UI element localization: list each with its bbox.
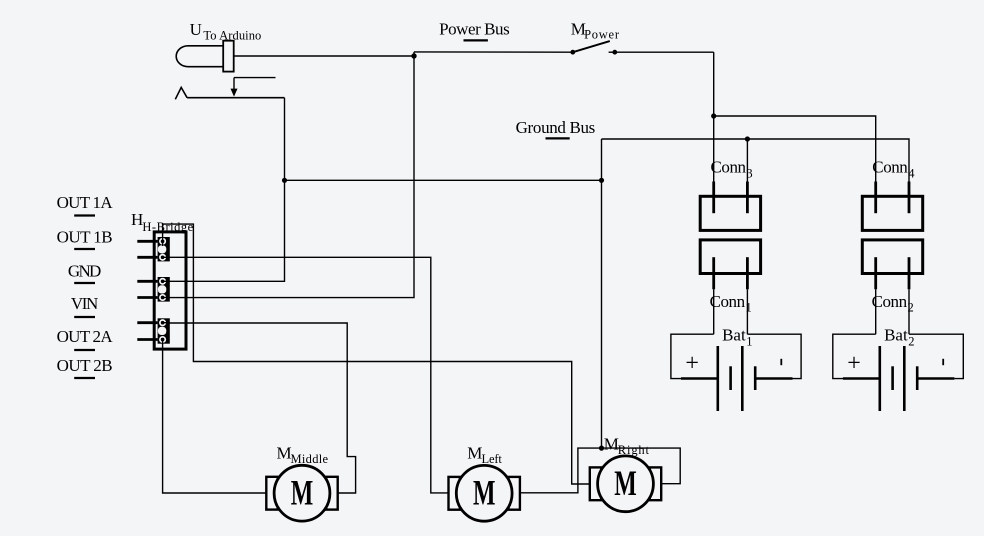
- svg-text:Conn: Conn: [711, 158, 747, 177]
- svg-text:M: M: [614, 463, 637, 503]
- wire arduino GND arrow to H-bridge pin 3: [166, 98, 285, 282]
- wire power bus step at junction: [413, 52, 415, 56]
- label Conn4: [872, 158, 915, 181]
- pin label OUT 1A: [57, 193, 114, 216]
- svg-text:3: 3: [746, 167, 752, 181]
- svg-text:Power: Power: [584, 28, 620, 42]
- pin label GND: [68, 261, 101, 283]
- label H H-Bridge: [131, 210, 194, 234]
- label Bat2: [884, 325, 914, 348]
- motor M_Right body: [590, 456, 661, 512]
- wire power junction down to H-bridge pin 4 VIN: [166, 56, 414, 298]
- wire M_Left right terminal loop to M_Right right terminal: [520, 448, 680, 493]
- connector Conn3 body: [700, 182, 760, 231]
- svg-text:Bat: Bat: [722, 325, 746, 344]
- motor M_Left body: [449, 465, 520, 521]
- label M_Power: [571, 20, 620, 42]
- wire ground bus drop to Conn3 right pin: [746, 139, 748, 182]
- svg-text:M: M: [277, 443, 292, 462]
- wire switch to Conn3 drop corner: [615, 51, 714, 53]
- svg-text:1: 1: [746, 334, 752, 348]
- connector U1 To Arduino (LED style plug): [176, 41, 233, 72]
- svg-text:+: +: [685, 350, 699, 376]
- pin label OUT 2A: [57, 327, 114, 350]
- svg-text:Power Bus: Power Bus: [439, 20, 510, 39]
- connector Conn4 body: [862, 182, 922, 231]
- svg-text:VIN: VIN: [71, 294, 98, 313]
- svg-text:Right: Right: [618, 443, 650, 457]
- label M_Middle: [277, 443, 329, 466]
- node junction GND net at arrow drop: [282, 178, 287, 183]
- svg-text:Bat: Bat: [884, 325, 908, 344]
- wire power branch down to Conn3 left pin: [713, 116, 715, 182]
- svg-text:OUT 2A: OUT 2A: [57, 327, 114, 346]
- node junction ground / M_Right loop: [599, 446, 604, 451]
- node junction ground bus / Conn3 right pin: [745, 136, 750, 141]
- H-bridge pad pins 3-4: [158, 277, 170, 302]
- wire vertical drop to power branch node: [713, 52, 715, 116]
- svg-text:M: M: [467, 444, 482, 463]
- svg-text:M: M: [473, 473, 496, 513]
- svg-text:GND: GND: [68, 261, 101, 280]
- svg-text:Left: Left: [482, 452, 503, 466]
- svg-text:2: 2: [908, 334, 914, 348]
- label Ground Bus: [516, 118, 596, 139]
- pin label OUT 2B: [57, 356, 113, 378]
- wire ground bus: [602, 139, 910, 182]
- node junction power branch Conn3/Conn4: [711, 113, 716, 118]
- wire Conn2 right pin to Bat2: [908, 289, 910, 334]
- label U1 To Arduino: [190, 20, 262, 43]
- node junction power bus / VIN: [411, 53, 416, 58]
- switch M_Power: [570, 41, 617, 55]
- svg-text:OUT 1A: OUT 1A: [57, 193, 114, 212]
- svg-text:Ground Bus: Ground Bus: [516, 118, 596, 137]
- label M_Right: [604, 435, 650, 458]
- arduino GND arrow symbol: [175, 78, 284, 100]
- svg-text:1: 1: [746, 301, 752, 315]
- battery Bat2 body: [833, 334, 964, 411]
- pin label OUT 1B: [57, 227, 113, 249]
- wire power branch to Conn4: [714, 116, 876, 182]
- motor M_Middle body: [266, 465, 337, 521]
- label Bat1: [722, 325, 752, 348]
- H-bridge U2 body: [154, 232, 186, 349]
- svg-text:Conn: Conn: [872, 158, 908, 177]
- svg-text:Conn: Conn: [710, 292, 746, 311]
- connector Conn2 body: [862, 240, 922, 289]
- node junction GND net / ground vertical: [599, 178, 604, 183]
- wire ground horizontal (GND net to ground vertical): [285, 179, 602, 181]
- svg-text:4: 4: [908, 167, 915, 181]
- wire power bus right segment (junction to switch): [414, 51, 573, 53]
- svg-text:U: U: [190, 20, 202, 39]
- wire Conn2 left pin to Bat2: [875, 289, 877, 334]
- wire power bus left segment (U1 to junction): [234, 55, 414, 57]
- label Conn1: [710, 292, 752, 315]
- svg-text:M: M: [291, 472, 314, 512]
- wire Conn1 left pin to Bat1: [713, 289, 715, 334]
- wire ground vertical (bus corner to M_Right loop): [601, 139, 603, 448]
- H-bridge pad pins 5-6: [158, 318, 170, 343]
- label Conn3: [711, 158, 753, 181]
- svg-text:Middle: Middle: [291, 452, 329, 466]
- wire H-bridge pin 1 OUT1A to M_Right left terminal: [163, 224, 590, 484]
- battery Bat1 body: [671, 334, 801, 411]
- wire H-bridge pin 2 OUT1B to M_Left left terminal: [166, 257, 449, 493]
- svg-text:Conn: Conn: [872, 292, 908, 311]
- label M_Left: [467, 444, 502, 466]
- svg-text:+: +: [847, 350, 861, 376]
- svg-text:H-Bridge: H-Bridge: [142, 220, 193, 234]
- label Power Bus: [439, 20, 510, 41]
- H-bridge pad pins 1-2: [158, 237, 170, 261]
- svg-text:OUT 2B: OUT 2B: [57, 356, 113, 375]
- connector Conn1 body: [700, 240, 760, 289]
- wire H-bridge pin 6 OUT2B to M_Middle left terminal: [163, 341, 267, 493]
- pin label VIN: [71, 294, 98, 317]
- svg-text:To Arduino: To Arduino: [203, 29, 261, 43]
- label Conn2: [872, 292, 914, 315]
- svg-text:2: 2: [908, 301, 914, 315]
- H-bridge pin stubs: [137, 241, 157, 339]
- wire Conn1 right pin to Bat1: [746, 289, 748, 334]
- svg-text:OUT 1B: OUT 1B: [57, 227, 113, 246]
- wire H-bridge pin 5 OUT2A to M_Middle right terminal: [166, 323, 356, 493]
- svg-text:M: M: [604, 435, 619, 454]
